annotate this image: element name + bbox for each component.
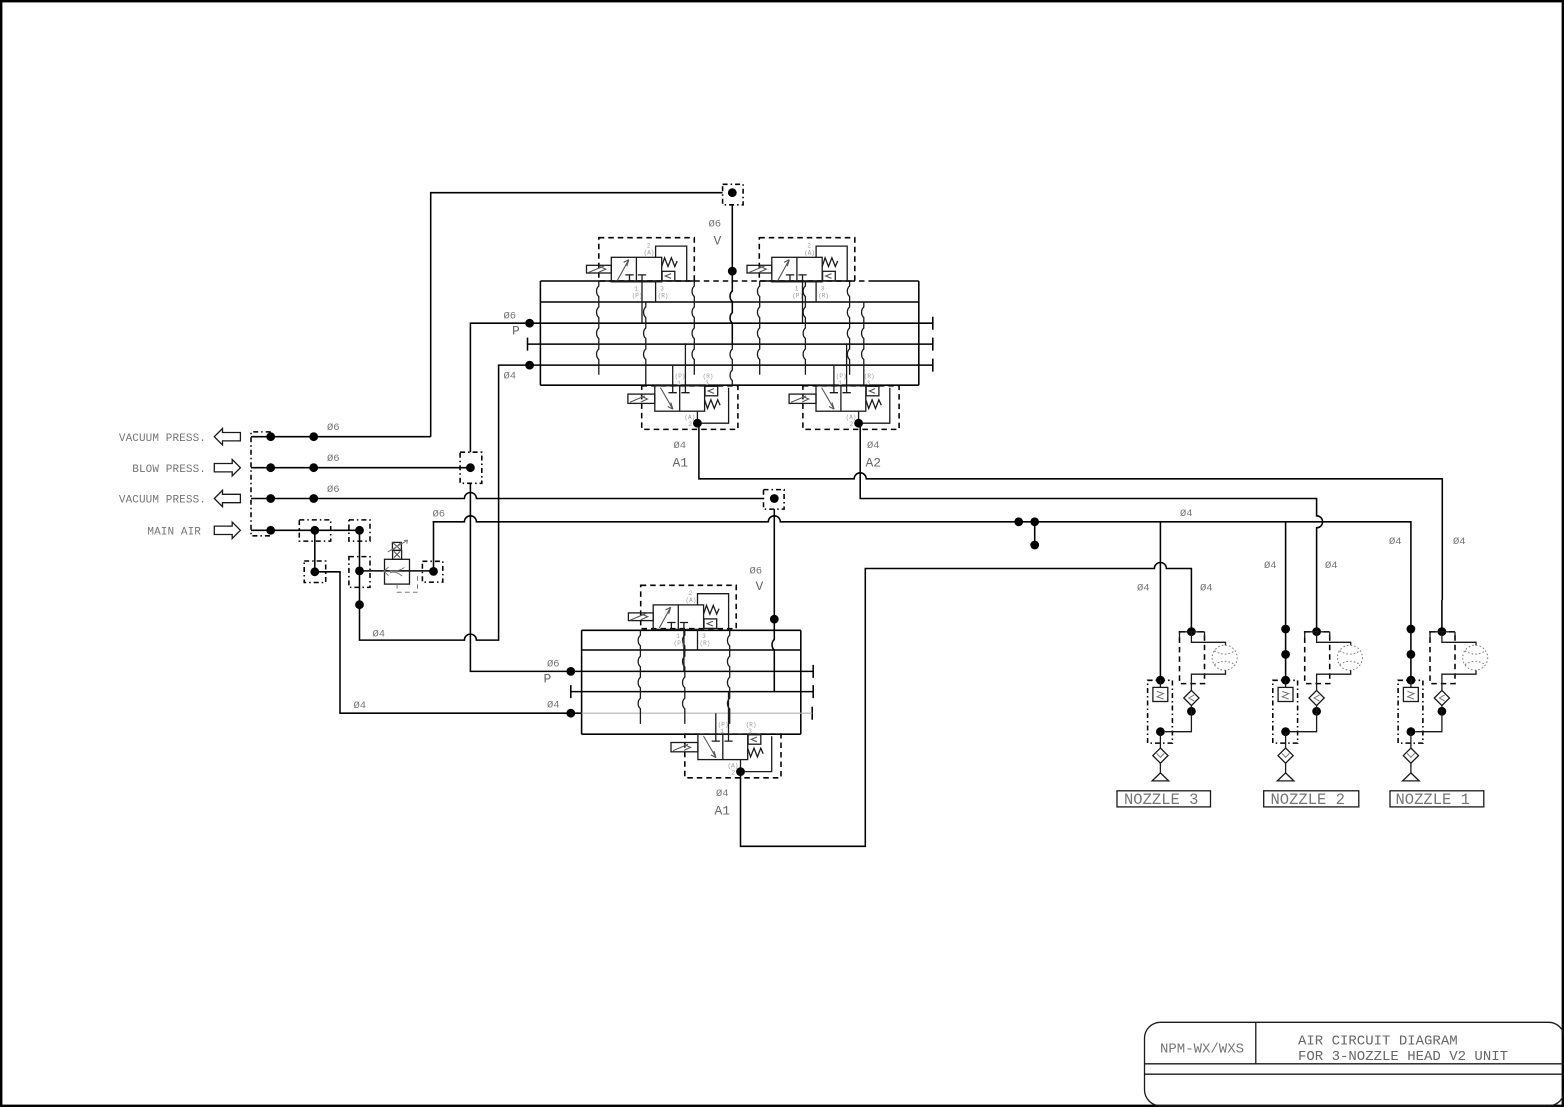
manifold U left edge (539, 281, 541, 385)
node row2 a (266, 463, 275, 472)
wire supply stub (1034, 522, 1036, 545)
wire blow press up to upper P rail (470, 323, 529, 452)
svg-text:NOZZLE 3: NOZZLE 3 (1124, 791, 1198, 809)
node row4 a (266, 526, 275, 535)
junction box V (top) (723, 184, 744, 205)
manifold U right edge (918, 281, 920, 385)
svg-text:Ø6: Ø6 (547, 659, 560, 671)
node regulator in (355, 567, 364, 576)
node nozzle2 left mid (1281, 650, 1290, 659)
node row3 a (266, 494, 275, 503)
valve U1 (upper manifold, top-left 3/2 solenoid) (587, 238, 695, 324)
wire main air drop right branch (359, 530, 361, 571)
regulator adjust stem (393, 550, 402, 559)
svg-text:Ø4: Ø4 (547, 700, 560, 712)
wire nozzle supply main (Ø6/Ø4 long run) (433, 516, 1411, 600)
svg-text:Ø6: Ø6 (504, 311, 517, 323)
node row3 b (309, 494, 318, 503)
arrow vacuum press top (points left) (214, 429, 240, 445)
svg-text:Ø4: Ø4 (504, 371, 517, 383)
title block divider vertical (1255, 1022, 1257, 1064)
wire A1 to nozzle 1 right branch (699, 424, 1442, 600)
wire V drop to upper manifold (730, 205, 732, 344)
wire vacuum press lower row to A junction (251, 493, 764, 499)
svg-text:FOR 3-NOZZLE HEAD V2 UNIT: FOR 3-NOZZLE HEAD V2 UNIT (1298, 1049, 1508, 1065)
manifold L rail A (582, 629, 801, 631)
wire A2 to nozzle 2 right branch (860, 424, 1322, 600)
svg-text:Ø4: Ø4 (1264, 560, 1277, 572)
node V top (728, 188, 737, 197)
node nozzle1 left upper (1407, 625, 1416, 634)
wire main air row (251, 529, 360, 531)
manifold L rail E (Ø4) (571, 707, 812, 720)
svg-text:Ø4: Ø4 (1453, 536, 1466, 548)
wire vacuum top riser to V junction (431, 193, 723, 437)
valve U4 (upper manifold, bottom-right 3/2 solenoid) (789, 343, 899, 429)
svg-text:Ø6: Ø6 (709, 219, 722, 231)
node row1 b (309, 432, 318, 441)
svg-text:Ø6: Ø6 (327, 484, 340, 496)
node row1 a (266, 432, 275, 441)
node regulator out (429, 567, 438, 576)
node supply stub end (1030, 541, 1039, 550)
wire lower A1 to nozzle 3 right branch (741, 563, 1192, 847)
svg-text:Ø4: Ø4 (674, 440, 687, 452)
manifold L right edge (800, 630, 802, 734)
node P upper (525, 319, 534, 328)
svg-text:VACUUM PRESS.: VACUUM PRESS. (119, 495, 206, 507)
svg-text:Ø4: Ø4 (354, 700, 367, 712)
wire blow press row (251, 467, 470, 469)
svg-text:Ø4: Ø4 (373, 629, 386, 641)
regulator relief dashed (397, 574, 417, 593)
arrow vacuum press lower (points left) (214, 490, 240, 506)
svg-text:Ø6: Ø6 (750, 566, 763, 578)
svg-text:AIR CIRCUIT DIAGRAM: AIR CIRCUIT DIAGRAM (1298, 1034, 1458, 1050)
node vacuum distribution junction (770, 494, 779, 503)
regulator body (385, 559, 410, 584)
node blow press junction (466, 463, 475, 472)
nozzle 2 assembly (1273, 600, 1363, 781)
svg-text:Ø4: Ø4 (1389, 536, 1402, 548)
node row2 b (309, 463, 318, 472)
svg-text:P: P (544, 672, 552, 687)
valve U3 (upper manifold, bottom-left 3/2 solenoid) (628, 343, 738, 429)
wire nozzle3 left riser (1159, 522, 1161, 600)
svg-text:Ø4: Ø4 (1325, 560, 1338, 572)
manifold L left edge (581, 630, 583, 734)
junction box main air 2 (349, 520, 370, 541)
node P lower (566, 667, 575, 676)
title block divider h2 (1145, 1073, 1564, 1075)
node main air box1 (310, 526, 319, 535)
junction box regulator in (349, 557, 370, 588)
manifold U rail 2 (540, 301, 918, 303)
wire main air drop left branch (314, 530, 316, 572)
manifold U rail 1 (540, 280, 918, 282)
svg-text:V: V (756, 579, 764, 594)
valve L1 (lower manifold, top 3/2 solenoid) (628, 585, 736, 671)
nozzle 1 assembly (1398, 600, 1488, 781)
svg-text:Ø4: Ø4 (1200, 583, 1213, 595)
manifold L rail F (582, 733, 801, 735)
svg-text:Ø4: Ø4 (1180, 508, 1193, 520)
manifold L rail C (P) (571, 665, 813, 678)
node lower V (770, 615, 779, 624)
valve L2 (lower manifold, bottom 3/2 solenoid) (671, 692, 781, 778)
node Ø4 upper (525, 361, 534, 370)
svg-text:Ø4: Ø4 (867, 440, 880, 452)
nozzle 2 label box (1264, 791, 1359, 807)
manifold U rail 4 (528, 338, 933, 351)
svg-text:Ø4: Ø4 (1137, 583, 1150, 595)
svg-text:V: V (714, 234, 722, 249)
svg-text:Ø6: Ø6 (327, 422, 340, 434)
nozzle 3 assembly (stop valve, filter ball, check valves, nozzle) (1148, 600, 1238, 781)
node main air box2 (355, 526, 364, 535)
wire vacuum press top row (251, 436, 431, 438)
dash-dot input bracket (251, 432, 271, 536)
manifold U section breaks (wavy) (597, 281, 599, 375)
svg-text:Ø6: Ø6 (327, 453, 340, 465)
title block divider h1 (1145, 1063, 1564, 1065)
regulator diagonal arrow (388, 540, 408, 552)
svg-text:P: P (512, 324, 520, 339)
svg-text:NPM-WX/WXS: NPM-WX/WXS (1160, 1042, 1244, 1058)
svg-text:Ø4: Ø4 (716, 788, 729, 800)
node Ø4 lower (566, 709, 575, 718)
wire regulator out riser (433, 522, 435, 572)
manifold L section breaks (wavy) (638, 630, 640, 724)
manifold U rail 3 (P) (530, 317, 933, 330)
manifold L rail D (571, 685, 813, 698)
junction box vacuum distribution (764, 490, 785, 510)
svg-text:A2: A2 (866, 456, 882, 471)
wire upper manifold Ø4 feed (360, 365, 530, 640)
node V mid (728, 267, 737, 276)
svg-text:A1: A1 (715, 804, 731, 819)
svg-text:NOZZLE 1: NOZZLE 1 (1396, 791, 1470, 809)
manifold U rail 6 (540, 384, 918, 386)
node supply tap b (1030, 517, 1039, 526)
wire through regulator (360, 570, 434, 572)
valve U2 (upper manifold, top-right 3/2 solenoid) (747, 238, 855, 324)
nozzle 3 label box (1117, 791, 1211, 807)
regulator internal arrows (384, 567, 405, 576)
svg-text:VACUUM PRESS.: VACUUM PRESS. (119, 433, 206, 445)
wire blow press down to lower P rail (470, 483, 570, 671)
svg-text:Ø6: Ø6 (433, 509, 446, 521)
wire vacuum drop to lower manifold V (772, 509, 774, 691)
nozzle 1 label box (1390, 791, 1484, 807)
svg-text:NOZZLE 2: NOZZLE 2 (1271, 791, 1345, 809)
title block frame (1145, 1022, 1564, 1106)
wire nozzle2 left riser (1285, 522, 1287, 600)
node nozzle1 left mid (1407, 650, 1416, 659)
manifold L rail B (582, 649, 801, 651)
regulator adjust knob with X (392, 542, 401, 550)
svg-text:BLOW PRESS.: BLOW PRESS. (132, 464, 206, 476)
node nozzle2 left upper (1281, 625, 1290, 634)
node supply tap a (1014, 517, 1023, 526)
wire lower manifold P feed (Ø4) (315, 572, 571, 713)
arrow main air (points right) (214, 522, 240, 538)
node main air box3 (310, 567, 319, 576)
manifold U rail 5 (Ø4) (530, 359, 933, 372)
svg-text:A1: A1 (673, 456, 689, 471)
node regulator chain lower (355, 600, 364, 609)
junction box blow press (460, 452, 482, 483)
junction box main air 1 (299, 520, 330, 541)
arrow blow press (points right) (214, 460, 240, 476)
svg-text:MAIN AIR: MAIN AIR (147, 526, 201, 538)
junction box main air 3 (304, 561, 326, 583)
junction box regulator out (422, 561, 442, 582)
